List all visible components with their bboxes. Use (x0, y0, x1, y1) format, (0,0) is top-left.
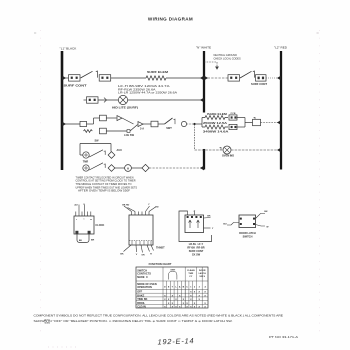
dashed wire to N lower segment (149, 167, 204, 169)
lower branch box (100, 128, 107, 134)
svg-text:CLEAN: CLEAN (187, 269, 195, 272)
margin perforation dots right (319, 30, 321, 332)
svg-text:WIRING DIAGRAM: WIRING DIAGRAM (148, 17, 193, 22)
switch blade SWT (165, 118, 173, 124)
svg-text:TMR: TMR (83, 160, 89, 163)
svg-text:OR: OR (141, 255, 145, 257)
left lead BU (227, 223, 239, 226)
svg-text:AU: AU (74, 204, 78, 207)
svg-text:LCH SW: LCH SW (124, 134, 135, 137)
wire (237, 126, 245, 128)
thermostat body (129, 215, 153, 245)
svg-text:r: r (76, 219, 77, 221)
clock lead wires up (78, 205, 80, 212)
connector plug P2 (99, 75, 111, 81)
connector plug broil (229, 124, 237, 129)
svg-text:CK SW: CK SW (192, 254, 201, 257)
svg-text:AFTER OVEN TEMP IS BELOW 550F: AFTER OVEN TEMP IS BELOW 550F (78, 190, 131, 193)
stray scan dash top right (317, 32, 319, 35)
junction node (193, 123, 195, 125)
clock top pins (76, 212, 91, 217)
plug tick (254, 117, 256, 119)
right bottom lead W (256, 225, 266, 227)
svg-text:w: w (90, 219, 92, 221)
blade joining branches (130, 125, 138, 131)
lamp oven ind (223, 146, 231, 154)
svg-text:CONTROL IS AT SETTING FROM CLO: CONTROL IS AT SETTING FROM CLOCK TO TIME… (76, 180, 136, 183)
inner contact arrows (189, 220, 192, 228)
svg-text:RF-RLW 2350W 26.6A: RF-RLW 2350W 26.6A (118, 88, 156, 91)
svg-text:SURF CONT: SURF CONT (64, 85, 88, 88)
wire (128, 99, 203, 101)
plug tick (96, 71, 98, 78)
oven relay box (253, 119, 261, 125)
wire dashed (204, 77, 228, 79)
junction at L1 (62, 122, 66, 127)
bus N WHITE lower segment (203, 149, 205, 170)
bypass riser right (110, 144, 112, 152)
svg-text:BK: BK (207, 215, 211, 217)
thermostat leads up-left (124, 206, 132, 212)
svg-text:HID LITE (SURF): HID LITE (SURF) (112, 107, 138, 110)
diode triangle 1 (117, 116, 122, 121)
svg-text:AUX: AUX (117, 149, 123, 152)
ground arrow (215, 67, 219, 70)
wire (143, 123, 151, 125)
svg-text:OFF: OFF (137, 291, 142, 294)
junction L2 bus (277, 76, 281, 81)
plug tick (253, 71, 255, 78)
svg-text:BU: BU (223, 223, 227, 225)
body (239, 215, 256, 228)
svg-text:TIMER CONTACT RELOCATED IN CIR: TIMER CONTACT RELOCATED IN CIRCUIT WHEN (76, 176, 134, 179)
plug tick (104, 164, 105, 168)
bypass riser left (79, 144, 81, 156)
svg-text:Grille: Grille (45, 322, 51, 324)
svg-text:192-E-14: 192-E-14 (157, 336, 194, 346)
thermostat leads up-right (146, 206, 150, 212)
wire dotted to L2 (266, 77, 281, 79)
riser to upper branch (93, 118, 95, 124)
junction N (200, 166, 204, 171)
junction N bus (200, 76, 204, 81)
switch blade surf cont (81, 71, 93, 78)
svg-text:"L2" RED: "L2" RED (274, 46, 288, 50)
table row lines (136, 281, 208, 304)
svg-text:3400W 14.6A: 3400W 14.6A (203, 131, 229, 134)
svg-text:CHECK LOCAL CODES: CHECK LOCAL CODES (214, 57, 241, 60)
svg-text:PT NO 33-171-A: PT NO 33-171-A (269, 335, 298, 339)
svg-text:LF-H 88-98V 120VA 44.7A: LF-H 88-98V 120VA 44.7A (118, 85, 170, 88)
right rail (244, 118, 246, 128)
left rail (201, 118, 203, 128)
body (185, 215, 204, 233)
connector plug P5 (87, 97, 99, 103)
table outer frame (136, 267, 208, 308)
switch blade G (89, 163, 103, 170)
wire to L2 (231, 149, 281, 151)
svg-text:RD: RD (155, 206, 159, 208)
wire (131, 167, 142, 169)
svg-text:"L1" BLACK: "L1" BLACK (60, 47, 78, 51)
wire (106, 130, 127, 132)
resistor bake elem (202, 116, 228, 120)
terminal diamond G2 (142, 164, 149, 171)
svg-text:F FB: F FB (231, 113, 236, 115)
top pins (187, 211, 189, 215)
relay box (151, 121, 158, 127)
connector plug P4 (256, 75, 267, 81)
svg-text:2-A: 2-A (140, 128, 144, 131)
svg-text:BK: BK (264, 211, 268, 213)
timer contact circle F (83, 152, 89, 158)
wire (195, 149, 223, 151)
svg-text:UPPER WHEN TIMER TIMES OUT AND: UPPER WHEN TIMER TIMES OUT AND LOWER SET… (76, 186, 138, 189)
wire to split (87, 123, 94, 125)
svg-text:SW S: SW S (199, 276, 205, 278)
svg-text:LR-LR 1250W 44.7A or 2350W 26.: LR-LR 1250W 44.7A or 2350W 26.6A (118, 92, 178, 95)
plug tick (104, 151, 105, 155)
stub (80, 154, 83, 156)
bypass wire SW (80, 143, 111, 145)
wire (62, 123, 80, 125)
wire slanting to main (122, 118, 134, 124)
svg-text:TIME BK: TIME BK (137, 298, 147, 301)
svg-text:LATCH: LATCH (199, 272, 207, 275)
wire (166, 77, 203, 79)
right lead Y (204, 227, 211, 229)
riser dashed (194, 124, 196, 150)
svg-text:SWT: SWT (166, 127, 172, 130)
stray scan dash top left (34, 32, 36, 35)
terminal diamond F (108, 152, 115, 159)
plug tick (220, 147, 222, 149)
right lead BK (204, 217, 211, 220)
svg-text:SW: SW (94, 140, 99, 143)
svg-text:DOOR: DOOR (199, 270, 206, 272)
svg-text:BAKE: BAKE (137, 294, 144, 297)
svg-text:CLOCK: CLOCK (95, 224, 104, 227)
connector box (80, 121, 87, 126)
terminal circle (181, 121, 186, 126)
delay TML box (100, 115, 107, 121)
upper branch wire (94, 117, 100, 119)
svg-text:SWITCH: SWITCH (243, 235, 253, 238)
svg-text:CY: CY (189, 276, 193, 278)
svg-text:BK: BK (120, 254, 124, 256)
wire (62, 77, 69, 79)
lower branch thermostat contact squiggle (84, 130, 93, 133)
cross junction with N lower segment (203, 149, 205, 151)
wire with tick (98, 99, 118, 101)
svg-text:SHOWN IN "OFF" OR "RELAXED" PO: SHOWN IN "OFF" OR "RELAXED" POSITION. ⎉ … (34, 319, 233, 323)
timer motor M (125, 165, 132, 172)
thermostat bottom leads (124, 245, 132, 252)
clock body (74, 216, 94, 234)
bus L2 RED (280, 51, 282, 170)
junction at L1 (62, 76, 66, 81)
connector plug bake (229, 115, 237, 120)
terminal diamond G1 (108, 165, 115, 172)
outer wrap wire (179, 211, 212, 242)
wire to network (195, 123, 203, 125)
perforation dots bottom (48, 346, 76, 348)
header cam symbol (169, 271, 177, 279)
svg-text:SURF ELEM: SURF ELEM (147, 71, 168, 74)
inner pins (240, 218, 242, 220)
connector plug P3 (228, 75, 240, 81)
wire (237, 117, 245, 119)
dash to junction (187, 123, 195, 125)
svg-text:TMR: TMR (188, 273, 193, 275)
wire (158, 123, 165, 125)
svg-text:THMST: THMST (156, 247, 165, 250)
svg-text:FUNCTION CHART: FUNCTION CHART (149, 262, 172, 266)
svg-text:SURF CONT: SURF CONT (251, 83, 268, 86)
dashed wire to L2 (261, 122, 282, 124)
svg-text:BROIL: BROIL (137, 302, 145, 305)
wire (106, 117, 116, 119)
junction L2 (277, 148, 281, 153)
right top lead BK (256, 214, 266, 219)
timer contact circle G (83, 165, 89, 171)
diode triangle 2 (138, 122, 143, 127)
plug tick (174, 119, 176, 124)
junction N bus (200, 98, 204, 103)
clock bottom jumper loop (77, 234, 89, 243)
svg-text:THE MIDDLE CONTACT OF TIMER MO: THE MIDDLE CONTACT OF TIMER MOVES TO (76, 183, 132, 186)
svg-text:CLEAN: CLEAN (137, 306, 146, 309)
bus L1 BLACK (61, 51, 64, 170)
svg-text:BK RD: BK RD (122, 204, 129, 206)
stub (84, 99, 87, 101)
svg-text:BR: BR (91, 240, 95, 242)
lamp HID LITE (118, 95, 127, 104)
table column lines (163, 267, 202, 308)
switch blade F (89, 150, 103, 157)
thermostat top pins (132, 212, 150, 216)
svg-text:"N" WHITE: "N" WHITE (196, 46, 211, 50)
resistor broil elem (202, 125, 228, 129)
connector plug P1 (69, 75, 81, 81)
thermostat terminal strip line (129, 240, 153, 242)
connector pad (127, 130, 130, 133)
margin perforation dots left (40, 30, 42, 332)
svg-text:2500W 12.5A: 2500W 12.5A (203, 122, 227, 125)
wire (115, 167, 125, 169)
svg-text:COMPONENT SYMBOLS DO NOT REFLE: COMPONENT SYMBOLS DO NOT REFLECT TRUE CO… (34, 314, 284, 318)
wire (111, 77, 146, 79)
wire to ground arrow (204, 62, 217, 67)
thermostat terminal pins (132, 241, 151, 245)
bus N WHITE upper segment (203, 51, 205, 113)
svg-text:SWT: SWT (170, 269, 176, 271)
junction L2 (277, 120, 281, 125)
resistor surf elem (146, 76, 166, 80)
wire to relay box (245, 122, 253, 124)
switch blade surf cont right (240, 71, 252, 78)
clock bottom terminals (75, 231, 78, 234)
svg-text:OPERATION: OPERATION (137, 286, 152, 289)
svg-text:OVEN IND: OVEN IND (222, 155, 234, 158)
svg-text:MADE X: MADE X (137, 276, 148, 279)
svg-text:BK: BK (79, 240, 83, 242)
svg-text:Oven: Oven (45, 320, 51, 322)
inner pin squares (187, 216, 189, 218)
